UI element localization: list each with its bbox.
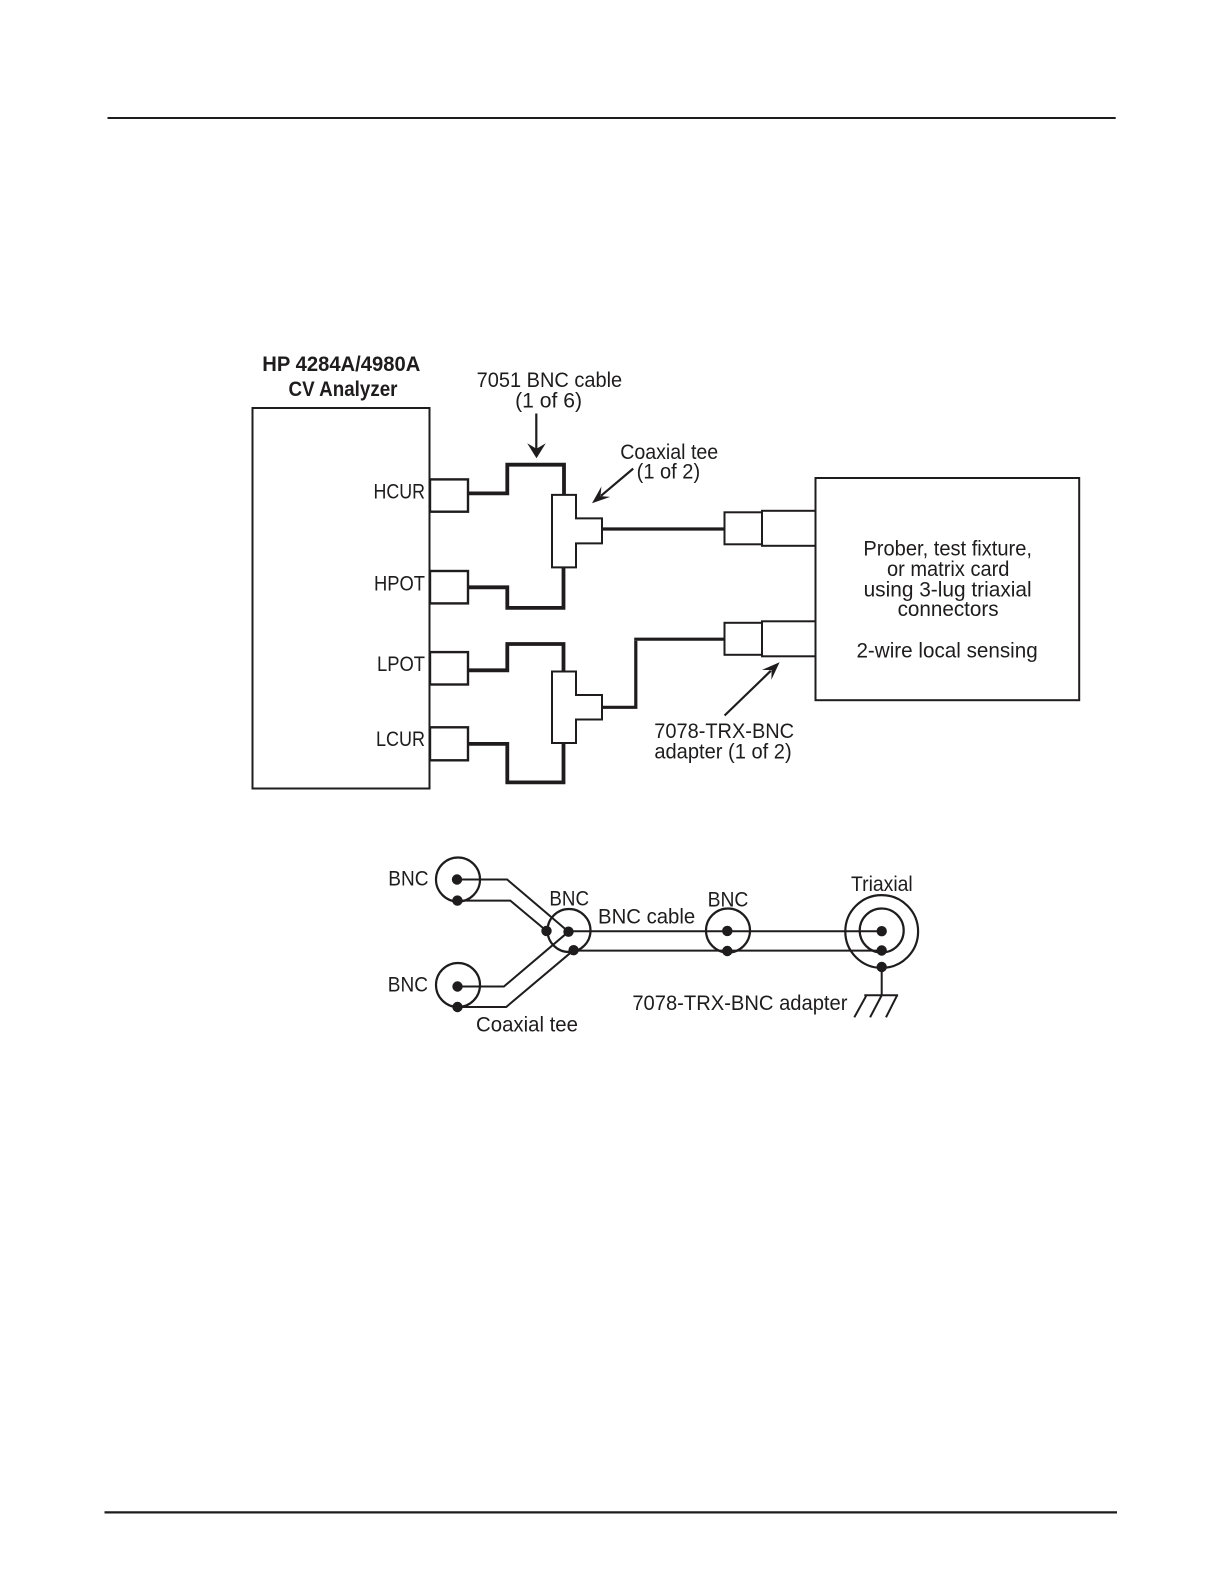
svg-text:connectors: connectors xyxy=(898,597,999,621)
svg-text:BNC: BNC xyxy=(388,972,428,996)
svg-text:2-wire local sensing: 2-wire local sensing xyxy=(856,638,1037,662)
svg-text:BNC: BNC xyxy=(388,866,428,890)
svg-text:HP 4284A/4980A: HP 4284A/4980A xyxy=(262,352,420,376)
svg-text:LPOT: LPOT xyxy=(377,652,425,676)
svg-text:7078-TRX-BNC adapter: 7078-TRX-BNC adapter xyxy=(632,991,847,1015)
svg-text:LCUR: LCUR xyxy=(376,727,425,751)
svg-text:BNC cable: BNC cable xyxy=(598,905,695,929)
svg-text:(1 of 2): (1 of 2) xyxy=(637,460,701,484)
svg-text:Coaxial tee: Coaxial tee xyxy=(476,1013,578,1037)
svg-text:BNC: BNC xyxy=(708,887,749,911)
svg-text:(1 of 6): (1 of 6) xyxy=(515,388,582,412)
svg-text:HPOT: HPOT xyxy=(374,571,425,595)
svg-text:Triaxial: Triaxial xyxy=(851,872,913,896)
svg-text:HCUR: HCUR xyxy=(374,480,426,504)
svg-text:BNC: BNC xyxy=(549,887,589,911)
svg-text:adapter (1 of 2): adapter (1 of 2) xyxy=(654,739,791,763)
svg-text:CV Analyzer: CV Analyzer xyxy=(289,377,399,401)
